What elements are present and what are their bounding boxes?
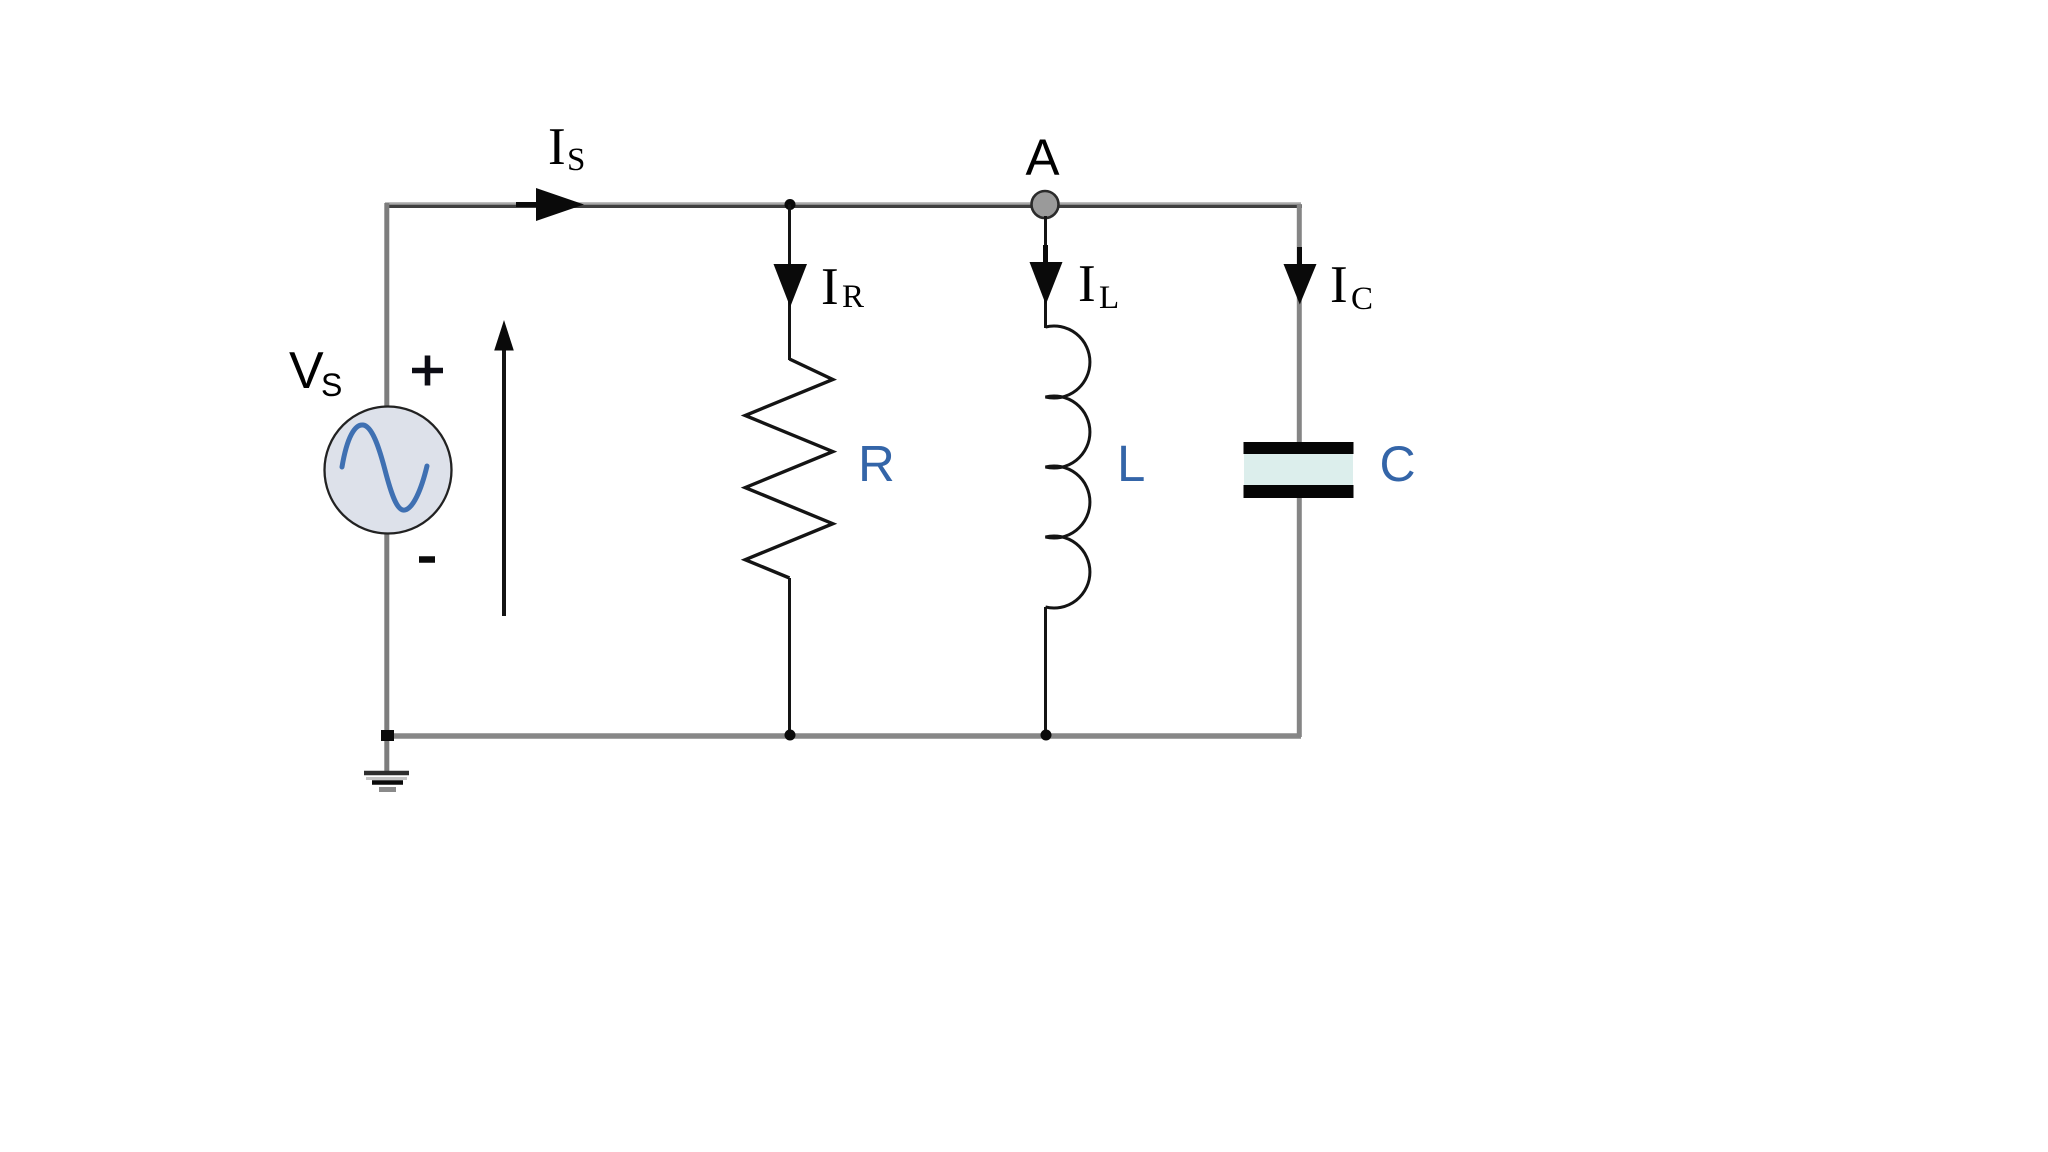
resistor branch bottom wire <box>788 578 791 735</box>
svg-text:S: S <box>567 142 585 178</box>
svg-text:I: I <box>548 118 566 176</box>
svg-text:C: C <box>1380 436 1416 492</box>
resistor branch top wire <box>788 205 791 361</box>
junction square bottom-left <box>381 730 394 741</box>
ground <box>364 773 409 790</box>
svg-text:I: I <box>1078 255 1096 313</box>
wire left vertical lower (source bottom lead to ground) <box>384 533 389 772</box>
wire bottom horizontal <box>387 733 1301 739</box>
wire right vertical upper (capacitor top lead) <box>1297 204 1302 444</box>
wire top horizontal from source to capacitor branch <box>385 202 1301 204</box>
arrow IL <box>1030 245 1063 305</box>
label minus sign <box>419 556 435 563</box>
svg-text:A: A <box>1025 129 1059 186</box>
inductor L coil <box>1046 326 1090 608</box>
arrow IC <box>1284 247 1317 305</box>
node dot top of resistor branch <box>785 199 796 210</box>
capacitor C dielectric fill <box>1244 448 1353 491</box>
svg-text:R: R <box>842 279 864 315</box>
wire left vertical upper (source top lead) <box>384 203 389 408</box>
svg-text:V: V <box>289 342 324 400</box>
capacitor C top plate <box>1244 442 1354 454</box>
wire right vertical lower (capacitor bottom lead) <box>1297 496 1302 737</box>
svg-text:I: I <box>1330 256 1348 314</box>
arrow Is <box>516 188 584 221</box>
voltage source Vs circle <box>325 407 452 534</box>
label plus sign <box>412 356 443 386</box>
current direction arrow beside source <box>494 320 514 616</box>
inductor branch bottom wire <box>1044 607 1047 735</box>
svg-text:L: L <box>1099 280 1119 316</box>
svg-text:R: R <box>858 435 895 492</box>
svg-text:I: I <box>821 258 839 316</box>
junction dot bottom of inductor branch <box>1041 730 1052 741</box>
node A <box>1032 191 1059 218</box>
svg-text:S: S <box>321 367 342 403</box>
svg-text:L: L <box>1117 435 1145 492</box>
arrow IR <box>774 264 808 307</box>
svg-text:C: C <box>1351 281 1373 317</box>
inductor branch top wire <box>1044 216 1047 328</box>
junction dot bottom of resistor branch <box>785 730 796 741</box>
capacitor C bottom plate <box>1244 485 1354 498</box>
resistor R zigzag <box>745 359 833 578</box>
voltage source sine wave <box>342 425 427 510</box>
